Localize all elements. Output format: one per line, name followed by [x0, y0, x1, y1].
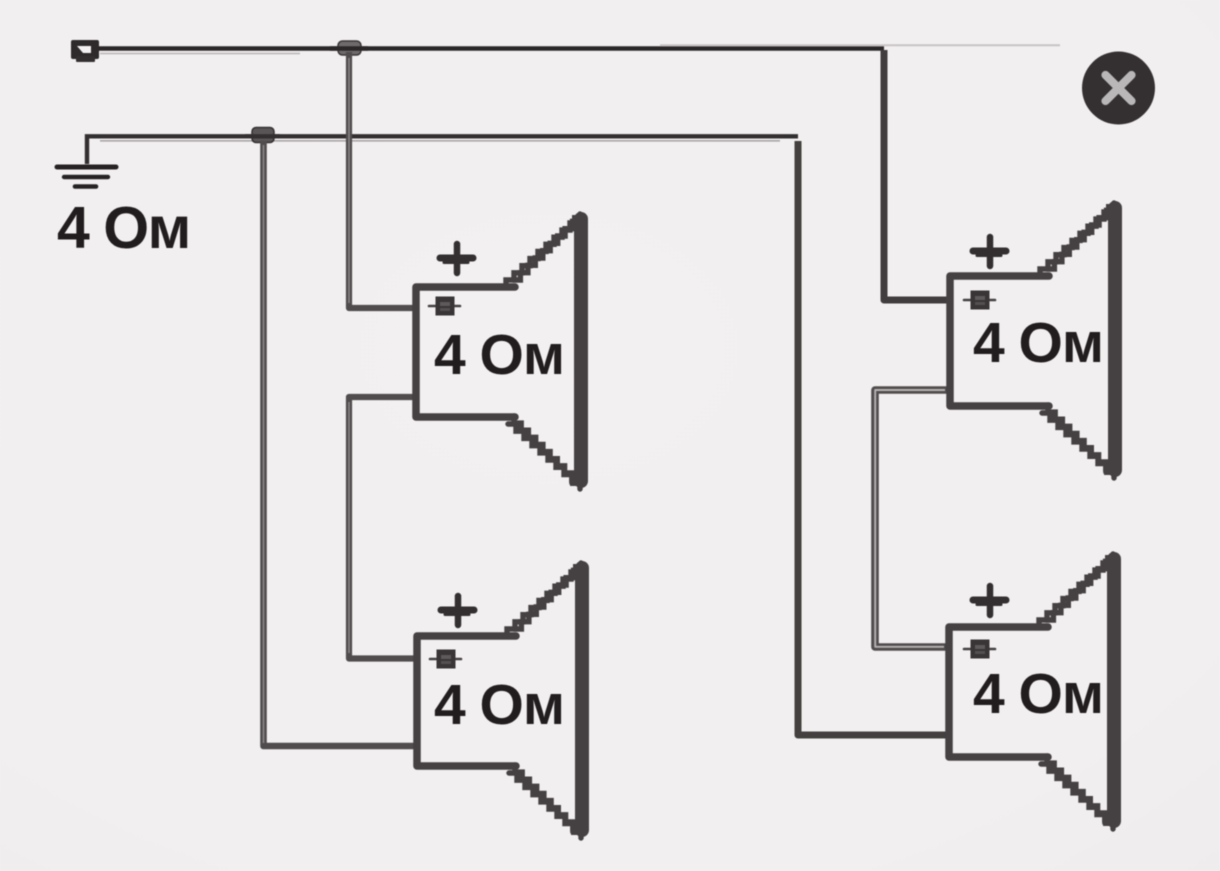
wire: + bus from amplifier — [98, 46, 884, 50]
speaker LS3 — [950, 203, 1115, 478]
LS1 cone front — [574, 219, 588, 481]
LS1 cone top edge — [513, 214, 580, 280]
LS3 terminal block — [964, 299, 995, 302]
speaker LS1 — [416, 214, 581, 489]
LS4 box — [949, 627, 1048, 757]
svg-text:4 Ом: 4 Ом — [434, 673, 564, 737]
LS2 box — [417, 636, 516, 766]
LS4 terminal block — [964, 648, 995, 651]
wire: + bus to LS3 + terminal — [884, 50, 947, 300]
LS3 box — [950, 276, 1049, 406]
LS1 terminal block — [429, 305, 460, 308]
svg-text:4 Ом: 4 Ом — [57, 195, 190, 261]
wire: - bus — [87, 136, 798, 164]
LS1 + polarity mark — [440, 244, 473, 273]
LS2 terminal block — [430, 658, 461, 661]
wire: LS2 - return to - bus junction J2 — [264, 141, 415, 746]
wire: LS3 - to LS4 + (series link) — [875, 390, 947, 647]
faint wire shadow — [100, 53, 300, 55]
wire: LS1 - to LS2 + (series link) — [349, 397, 414, 659]
junction J1 on + bus — [330, 41, 368, 55]
LS4 + polarity mark — [973, 586, 1006, 615]
LS1 box — [416, 287, 515, 417]
ground symbol — [57, 167, 116, 187]
wire: + bus to LS1 + terminal — [349, 52, 413, 308]
LS2 cone front — [575, 568, 589, 830]
LS4 cone bottom edge — [1041, 764, 1113, 829]
speaker LS4 — [949, 554, 1114, 829]
wire: LS4 - return to - bus — [798, 141, 946, 735]
LS3 cone bottom edge — [1042, 413, 1114, 478]
faint wire shadow right — [660, 44, 1060, 46]
LS3 + polarity mark — [973, 237, 1006, 266]
LS1 cone bottom edge — [508, 424, 580, 489]
junction J2 on - bus — [245, 128, 280, 143]
LS2 + polarity mark — [441, 596, 474, 625]
LS2 cone top edge — [514, 563, 581, 629]
speaker LS2 — [417, 563, 582, 838]
LS3 cone top edge — [1047, 203, 1114, 269]
LS4 cone top edge — [1046, 554, 1113, 620]
amplifier output terminal — [71, 40, 99, 62]
close button — [1082, 52, 1155, 125]
svg-text:4 Ом: 4 Ом — [973, 311, 1103, 375]
svg-text:4 Ом: 4 Ом — [973, 662, 1103, 726]
LS3 cone front — [1108, 208, 1122, 470]
LS4 cone front — [1107, 559, 1121, 821]
svg-text:4 Ом: 4 Ом — [434, 323, 564, 387]
LS2 cone bottom edge — [509, 773, 581, 838]
